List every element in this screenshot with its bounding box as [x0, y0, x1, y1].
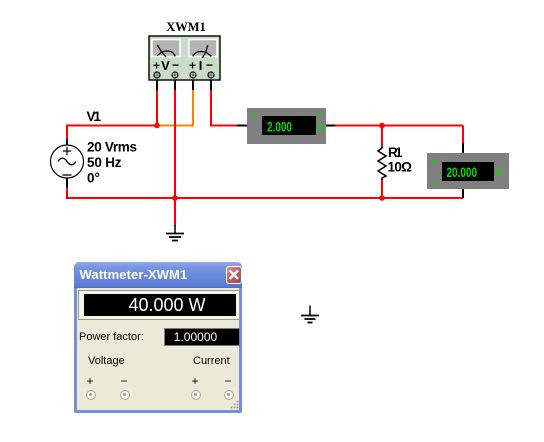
- svg-text:A: A: [317, 123, 324, 134]
- dialog client area: [77, 288, 239, 410]
- wire: orange wire node A to wattmeter +I: [159, 90, 194, 126]
- current plus terminal label: [189, 374, 201, 388]
- svg-text:−: −: [206, 58, 213, 72]
- dialog close button: [226, 266, 242, 284]
- svg-text:−: −: [318, 111, 324, 122]
- wattmeter main display 40.000 W: [78, 290, 240, 320]
- wire: wattmeter +I pin stub: [192, 78, 194, 91]
- svg-text:R1: R1: [388, 145, 403, 160]
- wattmeter +I- terminal labels: [189, 58, 213, 73]
- svg-text:−: −: [431, 179, 437, 190]
- resize grip: [230, 400, 239, 409]
- voltage section label: [88, 355, 125, 367]
- svg-text:10Ω: 10Ω: [388, 160, 413, 175]
- svg-text:+: +: [251, 112, 257, 123]
- wire: ammeter to node B and over to voltmeter drop: [335, 125, 463, 127]
- wire: ground1 stem red: [174, 198, 176, 226]
- ammeter polarity and unit labels: [251, 111, 324, 134]
- wire: wattmeter +V to node A: [156, 90, 158, 126]
- ground node junction dot: [172, 195, 178, 201]
- voltmeter polarity and unit labels: [431, 157, 503, 190]
- svg-text:I: I: [199, 58, 203, 73]
- voltage plus radio: [86, 390, 96, 400]
- current minus radio: [224, 390, 234, 400]
- wire: wattmeter -V down to bottom rail: [174, 90, 176, 198]
- wire: voltmeter top pin stub: [462, 143, 464, 154]
- dialog title bar: [74, 262, 242, 288]
- current section label: [193, 355, 230, 367]
- wire: R1 bottom to bottom rail: [381, 179, 383, 198]
- svg-text:V1: V1: [87, 109, 102, 124]
- svg-text:+: +: [431, 157, 437, 168]
- wire: bottom rail from ground node to R1 bottom and voltmeter: [175, 197, 463, 199]
- voltmeter reading 20.000: [447, 164, 478, 180]
- current minus terminal label: [222, 374, 234, 388]
- wire: node B down to R1 top: [381, 126, 383, 147]
- wire: wattmeter -I pin stub: [210, 78, 212, 91]
- ammeter reading 2.000: [267, 119, 292, 135]
- power factor display 1.00000: [164, 328, 240, 346]
- svg-text:V: V: [161, 58, 170, 73]
- svg-text:20.000: 20.000: [447, 164, 478, 180]
- wire: voltmeter top drop: [462, 126, 464, 145]
- voltage minus terminal label: [118, 374, 130, 388]
- ground GND2 (standalone): [301, 306, 319, 323]
- wattmeter XWM1 body: [149, 36, 220, 80]
- svg-text:2.000: 2.000: [267, 119, 292, 135]
- svg-text:XWM1: XWM1: [166, 20, 206, 34]
- svg-text:−: −: [172, 58, 179, 72]
- voltage minus radio: [120, 390, 130, 400]
- wattmeter terminal pins: [154, 72, 214, 78]
- wattmeter dialog window Wattmeter-XWM1: [74, 262, 242, 413]
- wire: V1 plus to node A: [67, 126, 157, 141]
- AC source V1 symbol: [51, 145, 84, 178]
- voltage plus terminal label: [84, 374, 96, 388]
- svg-text:V: V: [496, 168, 503, 179]
- node A junction dot: [154, 123, 160, 129]
- node B junction dot: [379, 123, 385, 129]
- resistor R1 symbol: [378, 146, 386, 180]
- wire: wattmeter -V pin stub: [174, 78, 176, 91]
- label R1: [388, 145, 403, 160]
- wire: V1 top pin stub: [66, 139, 68, 146]
- svg-text:0°: 0°: [87, 171, 100, 186]
- dialog title text: [80, 267, 188, 282]
- svg-text:+: +: [153, 59, 160, 73]
- voltmeter M2 body: [427, 153, 509, 189]
- node C junction dot (R1 bottom on rail): [379, 195, 385, 201]
- ground GND1: [166, 225, 184, 241]
- label XWM1: [166, 20, 206, 34]
- value label 20 Vrms / 50 Hz / 0deg: [87, 140, 137, 186]
- ammeter M1 body: [247, 108, 326, 144]
- wattmeter +V- terminal labels: [153, 58, 179, 73]
- wire: ammeter right pin stub: [325, 125, 336, 127]
- label V1: [87, 109, 102, 124]
- wire: wattmeter +V pin stub: [156, 78, 158, 91]
- svg-text:20 Vrms: 20 Vrms: [87, 140, 137, 155]
- svg-text:50 Hz: 50 Hz: [87, 155, 122, 170]
- wire: wattmeter -I to ammeter left: [211, 90, 238, 126]
- wire: V1 bottom pin stub: [66, 178, 68, 189]
- wire: ammeter left pin stub: [237, 125, 248, 127]
- wattmeter I-scale needle graphic: [192, 45, 211, 58]
- value label 10 ohm: [388, 160, 413, 175]
- wire: voltmeter bottom pin stub: [462, 188, 464, 198]
- current plus radio: [191, 390, 201, 400]
- wattmeter V-scale needle graphic: [157, 45, 176, 57]
- wire: V1 minus to bottom rail: [67, 187, 176, 198]
- svg-text:+: +: [189, 59, 196, 73]
- power factor label: [79, 331, 144, 343]
